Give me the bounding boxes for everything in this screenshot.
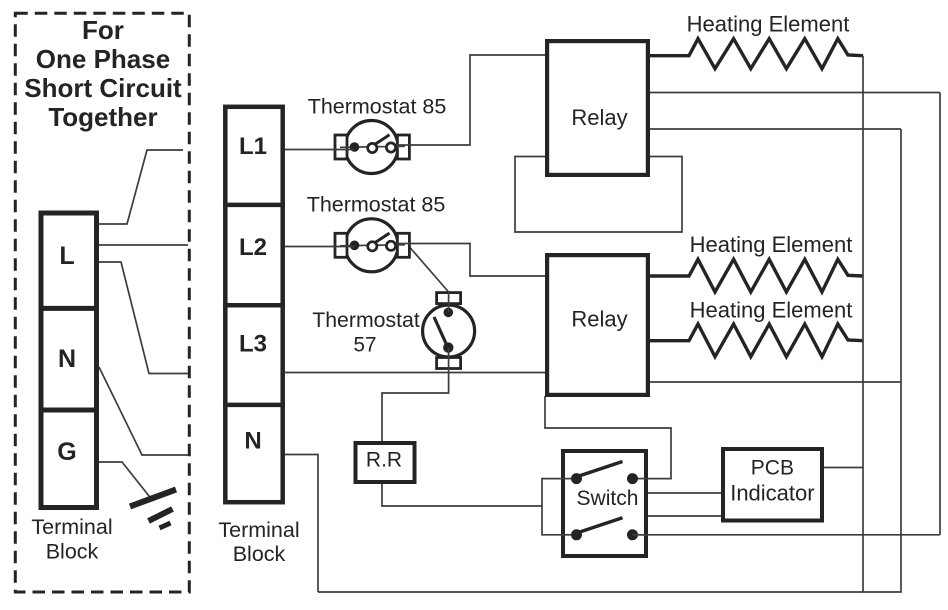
wire TH2 to thermostat TH3 (diagonal) <box>410 248 449 293</box>
svg-text:Short Circuit: Short Circuit <box>24 73 182 103</box>
svg-text:For: For <box>82 15 124 45</box>
svg-text:Thermostat 85: Thermostat 85 <box>307 193 446 217</box>
thermostat TH1 (85) <box>335 121 409 174</box>
svg-text:Relay: Relay <box>571 105 627 130</box>
wire TH2 to relay K2 <box>393 244 545 277</box>
svg-text:L2: L2 <box>239 234 267 261</box>
wire stubs through TH2 tabs <box>333 244 411 247</box>
svg-text:N: N <box>58 345 76 373</box>
wire N to N position <box>99 367 188 455</box>
wire L to L2 position <box>99 244 188 246</box>
wire K1 to right bus V2 <box>650 128 901 130</box>
note text: For One Phase Short Circuit Together <box>24 15 182 132</box>
svg-text:R.R: R.R <box>366 449 402 472</box>
svg-text:Heating Element: Heating Element <box>687 12 850 37</box>
TB2 caption: Terminal Block <box>218 518 299 566</box>
wire N to bottom bus <box>285 455 318 593</box>
box R.R <box>356 443 415 482</box>
svg-text:Relay: Relay <box>571 307 627 332</box>
terminal block TB1 (L N G) <box>39 213 100 508</box>
wire K2 bottom to switch S1 <box>545 396 671 479</box>
wire L to L3 position <box>99 262 188 374</box>
wire switch to PCB indicator (upper) <box>648 492 721 494</box>
svg-text:Switch: Switch <box>577 487 639 510</box>
wire stubs through TH1 tabs <box>333 145 411 150</box>
svg-text:Block: Block <box>233 542 286 566</box>
thermostat TH2 (85) <box>335 219 409 272</box>
resistor HE2 heating element <box>648 259 863 292</box>
wire stubs through switch border to poles <box>561 479 648 535</box>
switch S1 poles and blades <box>571 462 638 541</box>
switch S1 <box>563 451 646 556</box>
svg-text:G: G <box>57 438 76 466</box>
svg-text:Indicator: Indicator <box>730 481 814 506</box>
svg-text:Thermostat: Thermostat <box>312 308 420 332</box>
wire K1 coil loop <box>515 157 682 233</box>
wire stubs through TH3 tabs <box>448 291 450 370</box>
svg-text:L3: L3 <box>239 331 267 358</box>
wire L2 to thermostat TH2 <box>285 246 354 248</box>
wire K2 to right bus V2 <box>650 381 901 383</box>
svg-text:Block: Block <box>46 540 99 564</box>
wire switch to PCB indicator (lower) <box>648 515 721 517</box>
wire TH1 to relay K1 <box>393 55 545 145</box>
wire G to ground <box>99 462 153 501</box>
svg-text:One Phase: One Phase <box>36 44 170 74</box>
svg-text:57: 57 <box>354 333 377 357</box>
svg-text:Heating Element: Heating Element <box>690 298 853 323</box>
box PCB Indicator <box>723 449 822 521</box>
wire L3 to relay K2 <box>285 372 545 374</box>
wire into TH3 top <box>448 292 450 312</box>
wire PCB indicator to bus V1 <box>824 467 863 469</box>
thermostat TH3 (57) <box>423 293 475 369</box>
relay K1 <box>547 41 648 175</box>
ground earth symbol <box>130 490 176 529</box>
svg-text:Heating Element: Heating Element <box>690 232 853 257</box>
wire K1 to right bus V3 <box>650 92 940 94</box>
label Thermostat 57 <box>312 308 420 357</box>
wire TH3 bottom to R.R <box>382 348 449 441</box>
svg-text:Thermostat 85: Thermostat 85 <box>308 94 447 118</box>
resistor HE1 heating element <box>648 39 863 69</box>
terminal block TB2 (L1 L2 L3 N) <box>223 107 285 502</box>
svg-text:L: L <box>59 242 74 270</box>
resistor HE3 heating element <box>648 324 863 357</box>
wire L to L1 position <box>99 150 183 224</box>
wire R.R to switch left loop <box>382 484 542 506</box>
dashed enclosure: one-phase short-circuit group <box>15 13 189 592</box>
wire right bus V3 <box>939 93 941 535</box>
wire right bus V2 <box>900 129 902 593</box>
wire bottom neutral bus <box>318 591 901 593</box>
svg-text:L1: L1 <box>239 133 267 160</box>
wire switch bottom pole to right bus V3 <box>633 534 941 536</box>
svg-text:Together: Together <box>48 102 157 132</box>
svg-text:Terminal: Terminal <box>31 515 112 539</box>
wire right bus V1 <box>862 56 864 593</box>
svg-text:PCB: PCB <box>751 457 794 480</box>
wire L1 to thermostat TH1 <box>285 149 354 151</box>
svg-text:Terminal: Terminal <box>218 518 299 542</box>
svg-text:N: N <box>244 428 261 455</box>
relay K2 <box>547 255 648 395</box>
wire switch left loop <box>542 479 577 535</box>
TB1 caption: Terminal Block <box>31 515 112 564</box>
